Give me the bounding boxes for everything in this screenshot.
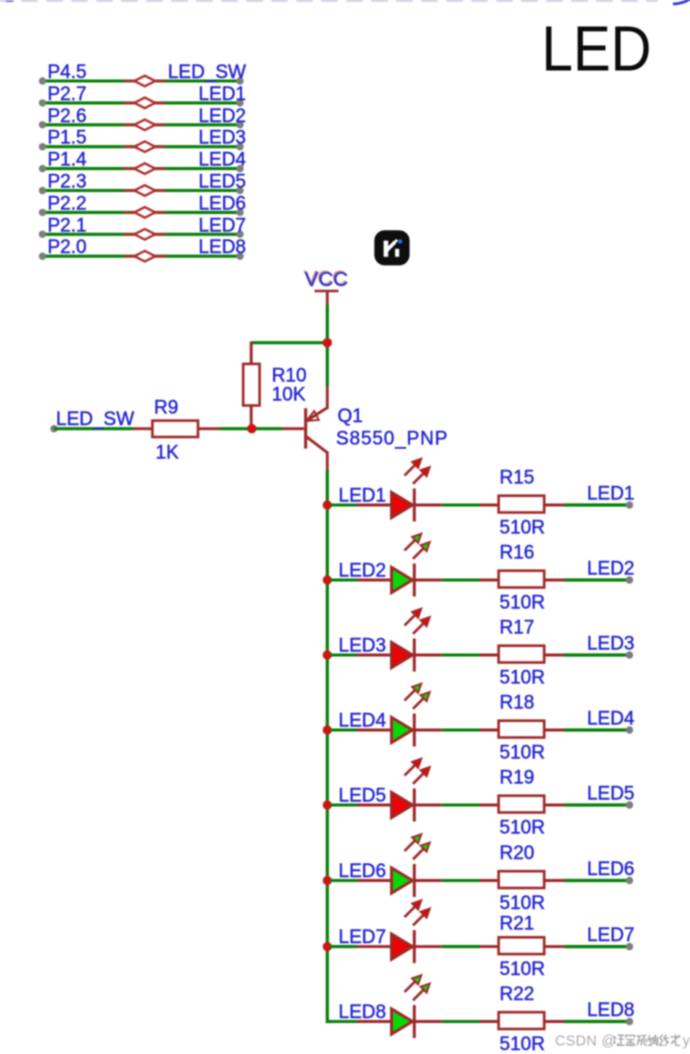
watermark text CSDN: [555, 1033, 690, 1049]
wire junction to R10 top (horizontal): [251, 341, 327, 344]
wire D5 to R19: [442, 803, 480, 806]
wire R20 to terminal: [565, 879, 630, 882]
wire bus to D2 anode: [330, 578, 357, 581]
svg-text:LED7: LED7: [198, 215, 246, 236]
svg-text:1K: 1K: [156, 442, 180, 463]
svg-text:R19: R19: [500, 768, 535, 789]
wire D1 to R15: [442, 503, 480, 506]
svg-text:R22: R22: [500, 984, 535, 1005]
wire D6 to R20: [442, 879, 480, 882]
resistor R9: [133, 421, 220, 437]
wire R9 to junction: [220, 427, 256, 430]
svg-text:VCC: VCC: [305, 268, 348, 291]
svg-text:LED7: LED7: [339, 927, 387, 948]
svg-text:LED3: LED3: [587, 634, 635, 655]
svg-text:Q1: Q1: [338, 406, 363, 427]
svg-text:LED1: LED1: [339, 486, 387, 507]
svg-text:LED_SW: LED_SW: [168, 62, 246, 83]
svg-text:LED5: LED5: [339, 786, 387, 807]
terminal dot LED6: [626, 877, 633, 884]
LED D1: [392, 489, 442, 522]
svg-text:10K: 10K: [272, 384, 306, 405]
wire P2.6 to LED2: [39, 121, 244, 128]
resistor R18: [480, 721, 565, 738]
terminal dot LED1: [626, 501, 633, 508]
light emission arrows D7: [405, 900, 430, 925]
wire bus to D6 anode: [330, 879, 357, 882]
wire P1.4 to LED4: [39, 165, 244, 172]
resistor R17: [480, 646, 565, 663]
net-tie diamond row 3: [124, 120, 166, 131]
wire collector bus down to LED8: [327, 470, 332, 1022]
svg-text:P2.0: P2.0: [48, 237, 87, 258]
svg-text:P4.5: P4.5: [48, 62, 87, 83]
LED D7: [392, 930, 442, 963]
terminal dot LED2: [626, 576, 633, 583]
svg-text:R21: R21: [500, 914, 535, 935]
svg-text:R20: R20: [500, 843, 535, 864]
junction node bus / LED1: [323, 500, 332, 509]
LED D4: [392, 714, 442, 747]
light emission arrows D3: [405, 609, 430, 634]
svg-text:LED5: LED5: [587, 784, 635, 805]
svg-text:LED6: LED6: [339, 861, 387, 882]
svg-text:CSDN @: CSDN @: [555, 1033, 616, 1049]
svg-text:510R: 510R: [500, 593, 545, 614]
svg-text:LED1: LED1: [198, 84, 246, 105]
svg-text:P2.3: P2.3: [48, 172, 87, 193]
resistor R15: [480, 496, 565, 513]
wire junction to Q1 base: [256, 427, 284, 430]
svg-text:510R: 510R: [500, 668, 545, 689]
light emission arrows D1: [405, 459, 430, 484]
junction node VCC / R10 / Q1 emitter: [323, 338, 332, 347]
LED D5: [392, 789, 442, 822]
net-tie diamond row 8: [124, 229, 166, 240]
svg-text:LED5: LED5: [198, 172, 246, 193]
svg-text:S8550_PNP: S8550_PNP: [336, 428, 448, 449]
svg-text:LED6: LED6: [198, 193, 246, 214]
transistor Q1 S8550 PNP: [304, 386, 327, 471]
wire R18 to terminal: [565, 728, 630, 731]
net-tie diamond row 2: [124, 98, 166, 109]
resistor R16: [480, 571, 565, 588]
wire P2.1 to LED7: [39, 231, 244, 238]
svg-text:P1.5: P1.5: [48, 128, 87, 149]
svg-text:LED4: LED4: [339, 711, 387, 732]
svg-text:LED6: LED6: [587, 859, 635, 880]
LED D8: [392, 1005, 442, 1038]
svg-text:R18: R18: [500, 693, 535, 714]
svg-text:510R: 510R: [500, 518, 545, 539]
wire P2.2 to LED6: [39, 209, 244, 216]
svg-text:P1.4: P1.4: [48, 150, 88, 171]
svg-text:510R: 510R: [500, 818, 545, 839]
junction node R9 / R10 / Q1 base: [247, 424, 256, 433]
svg-text:LED4: LED4: [198, 150, 246, 171]
net-tie diamond row 7: [124, 207, 166, 218]
svg-text:510R: 510R: [500, 959, 545, 980]
wire P4.5 to LED_SW: [39, 77, 244, 84]
svg-text:LED3: LED3: [198, 128, 246, 149]
svg-text:LED_SW: LED_SW: [56, 409, 134, 430]
light emission arrows D6: [405, 834, 430, 859]
svg-text:LED2: LED2: [587, 559, 635, 580]
terminal dot LED_SW: [50, 425, 57, 432]
terminal dot LED8: [626, 1018, 633, 1025]
wire P2.7 to LED1: [39, 99, 244, 106]
svg-text:LED8: LED8: [339, 1002, 387, 1023]
wire P2.0 to LED8: [39, 253, 244, 260]
net-tie diamond row 6: [124, 185, 166, 196]
terminal dot LED5: [626, 801, 633, 808]
wire D3 to R17: [442, 653, 480, 656]
svg-text:P2.2: P2.2: [48, 193, 87, 214]
LED D6: [392, 864, 442, 897]
net-tie diamond row 1: [124, 76, 166, 87]
resistor R19: [480, 796, 565, 813]
wire bus to D3 anode: [330, 653, 357, 656]
svg-text:LED1: LED1: [587, 484, 635, 505]
wire bus to D4 anode: [330, 728, 357, 731]
svg-text:LED4: LED4: [587, 709, 635, 730]
wire R16 to terminal: [565, 578, 630, 581]
light emission arrows D5: [405, 759, 430, 784]
svg-text:R17: R17: [500, 618, 535, 639]
svg-text:LED8: LED8: [587, 1000, 635, 1021]
svg-text:510R: 510R: [500, 743, 545, 764]
svg-text:P2.6: P2.6: [48, 106, 87, 127]
resistor R22: [480, 1012, 565, 1029]
svg-text:510R: 510R: [500, 893, 545, 914]
svg-text:P2.1: P2.1: [48, 215, 87, 236]
wire R15 to terminal: [565, 503, 630, 506]
wire D8 to R22: [442, 1020, 480, 1023]
light emission arrows D4: [405, 684, 430, 709]
light emission arrows D8: [405, 975, 430, 1000]
watermark logo (black rounded square with K): [374, 230, 409, 265]
junction node bus / LED2: [323, 575, 332, 584]
junction node bus / LED4: [323, 725, 332, 734]
svg-text:LED3: LED3: [339, 636, 387, 657]
junction node bus / LED3: [323, 650, 332, 659]
wire bus to D5 anode: [330, 803, 357, 806]
wire R19 to terminal: [565, 803, 630, 806]
svg-text:510R: 510R: [500, 1034, 545, 1054]
svg-text:LED2: LED2: [339, 561, 387, 582]
wire D4 to R18: [442, 728, 480, 731]
wire R17 to terminal: [565, 653, 630, 656]
terminal dot LED7: [626, 943, 633, 950]
net-tie diamond row 9: [124, 251, 166, 262]
junction node bus / LED6: [323, 876, 332, 885]
resistor R20: [480, 871, 565, 888]
net-tie diamond row 4: [124, 141, 166, 152]
wire R22 to terminal: [565, 1020, 630, 1023]
terminal dot LED4: [626, 726, 633, 733]
wire D2 to R16: [442, 578, 480, 581]
terminal dot LED3: [626, 651, 633, 658]
resistor R10: [243, 342, 259, 426]
junction node bus / LED7: [323, 942, 332, 951]
svg-text:R10: R10: [272, 365, 307, 386]
svg-text:y: y: [683, 1033, 690, 1049]
LED D2: [392, 564, 442, 597]
svg-text:LED7: LED7: [587, 925, 635, 946]
junction node bus / LED5: [323, 800, 332, 809]
svg-text:R16: R16: [500, 543, 535, 564]
svg-text:P2.7: P2.7: [48, 84, 87, 105]
svg-text:R9: R9: [154, 397, 178, 418]
svg-text:LED2: LED2: [198, 106, 246, 127]
wire VCC down to Q1 emitter: [326, 305, 329, 386]
wire bus to D1 anode: [330, 503, 357, 506]
cropped content remnant along top edge: [0, 0, 690, 4]
svg-text:LED8: LED8: [198, 237, 246, 258]
wire bus to D7 anode: [330, 945, 357, 948]
wire R21 to terminal: [565, 945, 630, 948]
wire LED_SW to R9: [54, 427, 133, 430]
svg-text:LED: LED: [542, 13, 652, 85]
wire P2.3 to LED5: [39, 187, 244, 194]
wire P1.5 to LED3: [39, 143, 244, 150]
wire bus to D8 anode: [330, 1020, 357, 1023]
wire D7 to R21: [442, 945, 480, 948]
net-tie diamond row 5: [124, 163, 166, 174]
resistor R21: [480, 937, 565, 954]
svg-text:R15: R15: [500, 468, 535, 489]
light emission arrows D2: [405, 534, 430, 559]
LED D3: [392, 639, 442, 672]
